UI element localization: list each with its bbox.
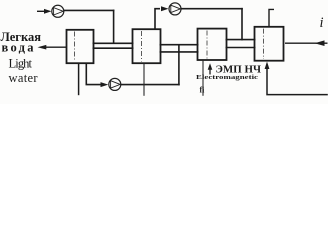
feed arrow into K4 right wall (285, 40, 328, 46)
pipe K1-K2 lower (93, 47, 134, 49)
wire P3 up leg (178, 44, 180, 85)
arrow into P2 (161, 6, 169, 11)
pump P2 (169, 3, 181, 15)
drain K3 (202, 60, 204, 96)
pump P3 (109, 78, 121, 90)
column K4 (255, 27, 284, 61)
drain K1 waste (78, 64, 80, 96)
pipe K2-K3 upper (160, 44, 199, 46)
svg-text:fi: fi (200, 86, 206, 95)
feed arrow into P1 (37, 9, 52, 14)
EMF applied arrow glyph (208, 63, 213, 74)
pipe K1 bottom to pump P3 (86, 64, 101, 85)
column K1 (67, 30, 94, 63)
EMF return line into K4 bottom (267, 66, 328, 95)
pipe K3-K4 lower (226, 47, 256, 49)
pipe K3-K4 upper (226, 39, 256, 41)
svg-text:вода: вода (2, 41, 35, 55)
pipe K1-K2 upper (93, 42, 134, 44)
pipe K2-K3 lower (160, 51, 199, 53)
wire P1 discharge top run (64, 9, 115, 11)
vent stub K4 top (269, 9, 274, 27)
pump P1 (52, 5, 64, 17)
svg-text:i: i (320, 15, 324, 31)
label Light water (9, 56, 39, 85)
wire P2 down leg (241, 8, 243, 41)
riser K2 top to pump P2 (155, 9, 160, 30)
label Легкая вода (1, 30, 42, 55)
column K3 (198, 29, 227, 60)
drain K2 (143, 64, 145, 96)
svg-text:water: water (9, 71, 39, 85)
wire P3 discharge bottom run (121, 84, 180, 86)
svg-text:Electromagnetic: Electromagnetic (196, 74, 258, 81)
wire P1 down leg (113, 10, 115, 44)
column K2 (133, 29, 161, 63)
svg-text:Light: Light (9, 56, 33, 70)
arrow into P3 (101, 82, 109, 87)
arrow up into K4 (265, 62, 270, 70)
wire P2 discharge top run (181, 8, 243, 10)
light water product arrow (38, 45, 68, 50)
